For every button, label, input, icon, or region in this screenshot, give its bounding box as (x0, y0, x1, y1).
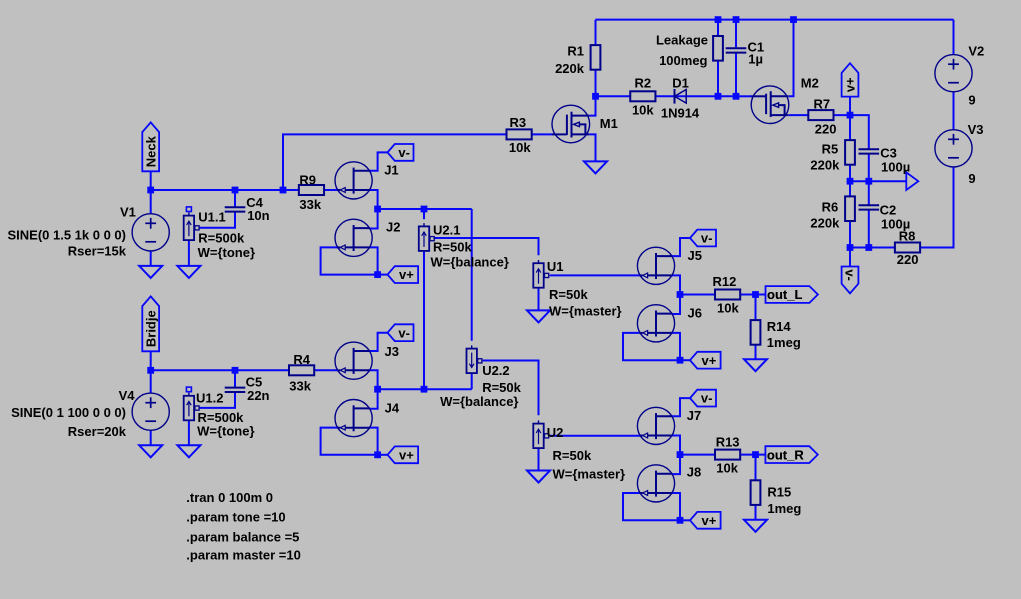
svg-text:R3: R3 (510, 115, 527, 130)
wire R6 top (849, 181, 851, 196)
ground R14 (744, 359, 767, 371)
ground U1 (527, 310, 550, 322)
resistor R3 (507, 129, 532, 139)
svg-text:10n: 10n (247, 208, 269, 223)
ground U2 (527, 471, 550, 483)
net flag output arrow (mid rail) (906, 172, 918, 190)
wire U1 bottom to ground (538, 288, 540, 311)
svg-text:R=50k: R=50k (553, 448, 592, 463)
node rail-C1 junction (733, 16, 740, 23)
capacitor C4 (225, 207, 246, 211)
wire R15 top (755, 455, 757, 481)
node C2 bottom junction (865, 244, 872, 251)
svg-text:220k: 220k (810, 215, 840, 230)
svg-text:220k: 220k (555, 61, 585, 76)
wire U1.2 bottom to ground (188, 420, 190, 445)
wire J3 source to node F (370, 370, 378, 389)
wire node E row (378, 208, 472, 210)
resistor R6 (845, 196, 855, 221)
svg-text:SINE(0 1.5 1k 0 0 0): SINE(0 1.5 1k 0 0 0) (7, 228, 126, 243)
wire R14 bottom to ground (755, 345, 757, 359)
svg-text:R5: R5 (822, 142, 839, 157)
wire J2 source down (370, 247, 378, 274)
svg-text:v-: v- (701, 391, 713, 406)
svg-text:J1: J1 (384, 163, 398, 178)
voltage source V4 (132, 393, 169, 430)
resistor R2 (630, 91, 655, 101)
wire J1 source to node E (370, 190, 378, 209)
wire R5 top (849, 115, 851, 140)
svg-text:Neck: Neck (143, 135, 158, 167)
wire J6 drain to node G (672, 295, 680, 315)
svg-text:v+: v+ (702, 353, 717, 368)
net flag v- at J7 (690, 390, 716, 407)
potentiometer U1.2 (184, 387, 200, 420)
voltage source V3 (935, 130, 972, 167)
svg-text:R1: R1 (567, 43, 584, 58)
wire node H to R13 (680, 454, 715, 456)
wire M2 drain to rail (789, 20, 794, 97)
svg-text:.tran 0 100m 0: .tran 0 100m 0 (186, 490, 273, 505)
port flag out_R (765, 446, 817, 463)
svg-text:R13: R13 (716, 434, 740, 449)
transistor M1 (552, 105, 590, 143)
svg-text:v-: v- (398, 325, 410, 340)
svg-text:SINE(0 1 100 0 0 0): SINE(0 1 100 0 0 0) (11, 405, 126, 420)
wire C4 bottom to U1.1 wiper (200, 212, 235, 228)
svg-text:J2: J2 (386, 220, 400, 235)
svg-text:v-: v- (701, 231, 713, 246)
svg-text:W={balance}: W={balance} (431, 254, 509, 269)
svg-text:V4: V4 (119, 388, 136, 403)
svg-text:33k: 33k (299, 197, 321, 212)
node rail-M2 junction (790, 16, 797, 23)
capacitor C3 (859, 149, 880, 153)
svg-text:1N914: 1N914 (661, 105, 700, 120)
wire J8 drain to node H (672, 455, 680, 475)
resistor R7 (808, 110, 833, 120)
node U2.1 bottom junction (421, 386, 428, 393)
svg-text:R6: R6 (822, 199, 839, 214)
node C4 top junction (232, 187, 239, 194)
wire J7 source to node H (672, 436, 680, 455)
svg-text:1meg: 1meg (767, 501, 801, 516)
ground M1 (584, 161, 607, 173)
wire U2 wiper to J7 gate (550, 435, 640, 437)
svg-text:Rser=20k: Rser=20k (68, 424, 127, 439)
voltage source V2 (935, 55, 972, 92)
svg-text:out_R: out_R (767, 447, 804, 462)
svg-text:W={tone}: W={tone} (198, 245, 255, 260)
wire J4 source down (370, 428, 378, 455)
svg-text:R14: R14 (767, 319, 792, 334)
svg-text:U1: U1 (547, 259, 564, 274)
wire J8 gate feedback loop (623, 493, 680, 520)
wire V1 bottom to ground (150, 251, 152, 266)
capacitor C2 (859, 205, 880, 209)
wire M1 drain to node B (590, 96, 596, 115)
wire v- flag stub (849, 248, 851, 267)
svg-text:100meg: 100meg (659, 53, 707, 68)
svg-text:M1: M1 (600, 116, 618, 131)
svg-text:V1: V1 (120, 205, 136, 220)
resistor R4 (289, 365, 314, 375)
net flag v+ at J6 (690, 352, 721, 369)
node C5 top junction (232, 367, 239, 374)
svg-text:R7: R7 (814, 97, 831, 112)
wire J2 gate feedback loop (321, 247, 378, 274)
svg-text:220: 220 (897, 252, 919, 267)
wire v- row to R8 (850, 247, 895, 249)
svg-text:10k: 10k (509, 140, 531, 155)
wire R15 bottom to ground (755, 505, 757, 520)
svg-text:v+: v+ (399, 267, 414, 282)
svg-text:J5: J5 (688, 248, 702, 263)
wire J8 v+ stub (680, 519, 690, 521)
svg-text:v+: v+ (843, 77, 858, 92)
capacitor C5 (225, 388, 246, 392)
ground R15 (744, 520, 767, 532)
wire J5 source to node G (672, 275, 680, 294)
svg-text:R4: R4 (293, 352, 310, 367)
transistor J6 (637, 305, 674, 342)
port flag out_L (766, 286, 818, 303)
wire V4 top (150, 370, 152, 393)
svg-text:W={tone}: W={tone} (197, 423, 254, 438)
net flag v- at J1 (388, 144, 414, 161)
wire node C to node D (718, 95, 736, 97)
svg-text:220: 220 (815, 122, 837, 137)
svg-text:J6: J6 (688, 306, 702, 321)
svg-text:W={balance}: W={balance} (440, 394, 518, 409)
wire V1 top (150, 190, 152, 214)
wire U2.1 bottom to node F row (423, 250, 425, 389)
wire R6 bottom (849, 221, 851, 248)
wire U2.1 top stub (423, 209, 425, 219)
voltage source V1 (132, 214, 169, 251)
svg-text:Leakage: Leakage (656, 33, 708, 48)
wire R4 to J3 gate (314, 369, 338, 371)
node U2.1 top junction (421, 206, 428, 213)
svg-text:R=500k: R=500k (198, 231, 245, 246)
wire Bridje flag stub (150, 351, 152, 370)
wire R1 top (595, 20, 597, 46)
svg-text:R8: R8 (899, 229, 916, 244)
node rail-Leakage junction (715, 16, 722, 23)
transistor J1 (335, 162, 372, 199)
wire J1 drain to v- flag (370, 152, 388, 170)
svg-text:Bridje: Bridje (143, 310, 158, 347)
wire U1 wiper to J5 gate (550, 274, 640, 276)
transistor J8 (637, 465, 674, 502)
wire U2.2 bottom to node F row (471, 373, 473, 389)
svg-text:W={master}: W={master} (553, 467, 626, 482)
svg-text:9: 9 (968, 93, 975, 108)
wire M2 source to R7 (789, 114, 808, 116)
potentiometer U2.2 (467, 345, 483, 373)
wire R12 to out_L (740, 294, 765, 296)
svg-text:1meg: 1meg (767, 335, 801, 350)
wire R9 to J1 gate (324, 189, 338, 191)
svg-text:J3: J3 (385, 344, 399, 359)
wire node A up and over to R3 (283, 134, 506, 190)
wire C3 bottom (868, 154, 870, 182)
wire J6 source down (672, 333, 680, 360)
wire J8 source down (672, 493, 680, 520)
node R7/V+ junction (847, 112, 854, 119)
potentiometer U1 (533, 260, 549, 288)
wire R8 to V3 (920, 167, 953, 248)
ground U1.2 (177, 445, 200, 457)
net flag v- at J5 (690, 230, 716, 247)
node H junction J7/J8 (677, 451, 684, 458)
svg-text:10k: 10k (716, 460, 738, 475)
net flag V- (bottom right) (842, 267, 859, 294)
svg-text:W={master}: W={master} (549, 304, 622, 319)
transistor M2 (751, 86, 789, 124)
node A junction (280, 187, 287, 194)
node E junction J1/J2 (374, 206, 381, 213)
node R5 bottom junction (847, 178, 854, 185)
svg-text:R=50k: R=50k (482, 380, 521, 395)
wire V4 bottom to ground (150, 430, 152, 445)
ground V1 (139, 266, 162, 278)
net flag Neck (142, 122, 159, 171)
wire J2 drain to node E (370, 209, 378, 229)
resistor R9 (299, 185, 324, 195)
svg-text:.param master =10: .param master =10 (186, 548, 301, 563)
wire node E down to U2.2 (471, 209, 473, 341)
wire J7 drain to v- flag (672, 398, 690, 416)
diode D1 (675, 89, 687, 104)
svg-text:9: 9 (968, 171, 975, 186)
wire bridge input row (151, 369, 290, 371)
svg-text:.param balance =5: .param balance =5 (186, 529, 299, 544)
wire U1.1 bottom to ground (188, 240, 190, 266)
wire J6 v+ stub (680, 359, 690, 361)
svg-text:R=50k: R=50k (549, 287, 588, 302)
svg-text:U2: U2 (547, 425, 564, 440)
wire node G to R12 (680, 294, 715, 296)
svg-text:10k: 10k (632, 103, 654, 118)
svg-text:R15: R15 (767, 484, 791, 499)
net flag v+ at J8 (690, 512, 721, 529)
wire J4 v+ stub (378, 454, 388, 456)
wire J6 gate feedback loop (623, 333, 680, 360)
wire R2 through D1 to node C (655, 95, 718, 97)
wire C5 bottom to U1.2 wiper (200, 392, 235, 408)
svg-text:U1.2: U1.2 (196, 391, 223, 406)
node Bridje/V4 junction (147, 367, 154, 374)
svg-text:R2: R2 (634, 76, 651, 91)
wire C1 bottom (735, 53, 737, 97)
wire C4 top (234, 190, 236, 207)
transistor J2 (335, 219, 372, 256)
net flag v- at J3 (388, 324, 414, 341)
svg-text:v-: v- (842, 269, 857, 281)
svg-text:U1.1: U1.1 (198, 210, 225, 225)
wire M1 source to ground (590, 134, 596, 161)
node J8 loop junction (677, 517, 684, 524)
svg-text:J4: J4 (385, 401, 400, 416)
potentiometer U1.1 (184, 207, 200, 240)
wire J5 drain to v- flag (672, 238, 690, 256)
svg-text:R9: R9 (299, 172, 316, 187)
node out_L junction (752, 291, 759, 298)
potentiometer U2 (533, 420, 549, 448)
svg-text:R=50k: R=50k (433, 239, 472, 254)
transistor J5 (637, 247, 674, 284)
svg-text:100µ: 100µ (881, 159, 910, 174)
wire node F row (378, 388, 472, 390)
node out_R junction (752, 451, 759, 458)
svg-text:v+: v+ (399, 447, 414, 462)
ground U1.1 (177, 266, 200, 278)
node G junction J5/J6 (677, 291, 684, 298)
resistor R5 (845, 140, 855, 165)
node Neck/V1 junction (147, 187, 154, 194)
svg-text:J8: J8 (687, 464, 701, 479)
node F junction J3/J4 (374, 386, 381, 393)
svg-text:22n: 22n (247, 388, 269, 403)
transistor J4 (335, 400, 372, 437)
svg-text:M2: M2 (801, 76, 819, 91)
transistor J3 (335, 342, 372, 379)
capacitor C1 (726, 48, 747, 52)
svg-text:Rser=15k: Rser=15k (68, 244, 127, 259)
resistor R13 (715, 450, 740, 460)
wire V2 to V3 (953, 92, 955, 130)
wire R3 to M1 gate (532, 133, 553, 135)
svg-text:V3: V3 (968, 122, 984, 137)
potentiometer U2.1 (419, 223, 435, 251)
svg-text:out_L: out_L (767, 287, 802, 302)
svg-text:10k: 10k (717, 300, 739, 315)
wire Neck flag to input row (150, 171, 152, 190)
wire J3 drain to v- flag (370, 333, 388, 351)
wire mid rail row to out arrow (850, 180, 906, 182)
svg-text:V2: V2 (968, 44, 984, 59)
net flag V+ (top right) (842, 63, 859, 96)
svg-text:C3: C3 (880, 146, 897, 161)
wire J2 v+ stub (378, 274, 388, 276)
node C junction D1/Leakage (715, 93, 722, 100)
resistor R14 (751, 320, 761, 345)
svg-text:R12: R12 (713, 274, 737, 289)
wire top supply rail (596, 19, 954, 21)
wire neck input row (151, 189, 299, 191)
wire R1 bottom (595, 70, 597, 96)
wire J4 drain to node F (370, 389, 378, 409)
wire C1 top (735, 20, 737, 49)
resistor R8 (895, 243, 920, 253)
node R6 bottom junction (847, 244, 854, 251)
node J6 loop junction (677, 357, 684, 364)
node J4 loop junction (374, 451, 381, 458)
svg-text:33k: 33k (289, 378, 311, 393)
transistor J7 (637, 407, 674, 444)
resistor R12 (715, 290, 740, 300)
svg-text:D1: D1 (672, 76, 689, 91)
wire C2 bottom (868, 210, 870, 248)
wire Leakage top (717, 20, 719, 37)
svg-text:C2: C2 (880, 203, 897, 218)
wire Leakage bottom (717, 61, 719, 97)
svg-text:U2.2: U2.2 (482, 363, 509, 378)
wire R14 top (755, 295, 757, 320)
resistor Leakage (713, 36, 723, 61)
wire C2 top (868, 181, 870, 205)
net flag v+ at J4 (388, 446, 419, 463)
node D junction C1/M2 (733, 93, 740, 100)
svg-text:U2.1: U2.1 (433, 223, 460, 238)
svg-text:1µ: 1µ (748, 51, 763, 66)
svg-text:v-: v- (398, 145, 410, 160)
wire R7 to C3 branch (834, 115, 869, 149)
net flag Bridje (142, 296, 159, 351)
node B junction R1/R2/M1 (592, 93, 599, 100)
wire U2.1 wiper to U1 top (431, 238, 539, 255)
resistor R15 (751, 480, 761, 505)
svg-text:J7: J7 (687, 408, 701, 423)
wire V2 top to rail (953, 20, 955, 55)
wire U2.2 wiper to U2 top (483, 361, 539, 416)
wire U2 bottom to ground (538, 448, 540, 470)
svg-text:.param tone =10: .param tone =10 (186, 509, 285, 524)
wire R5 bottom (849, 165, 851, 182)
ground V4 (139, 445, 162, 457)
svg-text:v+: v+ (702, 513, 717, 528)
wire C5 top (234, 370, 236, 387)
resistor R1 (591, 45, 601, 70)
wire node B to R2 (596, 95, 631, 97)
node C3 bottom junction (865, 178, 872, 185)
wire v+ flag stub (849, 97, 851, 116)
net flag v+ at J2 (388, 266, 419, 283)
node J2 loop junction (374, 271, 381, 278)
svg-text:220k: 220k (810, 157, 840, 172)
wire J4 gate feedback loop (321, 428, 378, 455)
wire node D to M2 gate (736, 95, 752, 97)
wire R13 to out_R (740, 454, 765, 456)
